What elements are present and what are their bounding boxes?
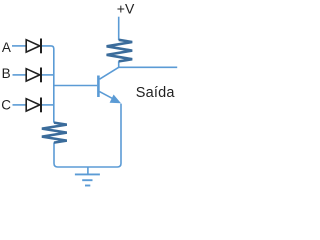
svg-text:C: C bbox=[1, 97, 11, 112]
svg-text:+V: +V bbox=[117, 0, 135, 16]
svg-text:B: B bbox=[2, 66, 11, 81]
svg-text:A: A bbox=[2, 40, 11, 55]
svg-text:Saída: Saída bbox=[136, 85, 176, 101]
